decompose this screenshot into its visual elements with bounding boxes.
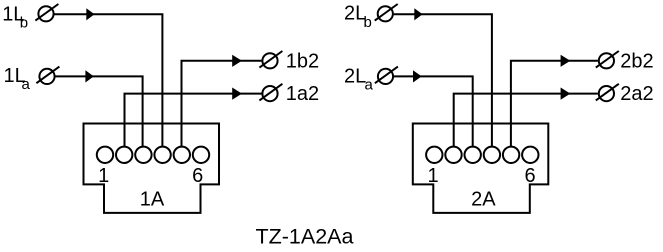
svg-text:1A: 1A: [140, 189, 165, 211]
svg-text:2b2: 2b2: [620, 50, 653, 72]
svg-text:6: 6: [524, 165, 535, 187]
svg-text:b: b: [20, 15, 28, 32]
svg-text:1: 1: [427, 165, 438, 187]
svg-text:1b2: 1b2: [286, 50, 319, 72]
svg-text:2L: 2L: [344, 65, 366, 87]
svg-text:1a2: 1a2: [286, 83, 319, 105]
svg-text:TZ-1A2Aa: TZ-1A2Aa: [256, 225, 354, 249]
svg-text:2A: 2A: [471, 189, 496, 211]
svg-text:6: 6: [192, 165, 203, 187]
svg-text:a: a: [365, 77, 374, 94]
svg-text:b: b: [364, 14, 372, 31]
svg-text:2a2: 2a2: [620, 83, 653, 105]
svg-text:a: a: [22, 76, 31, 93]
svg-text:1: 1: [98, 165, 109, 187]
